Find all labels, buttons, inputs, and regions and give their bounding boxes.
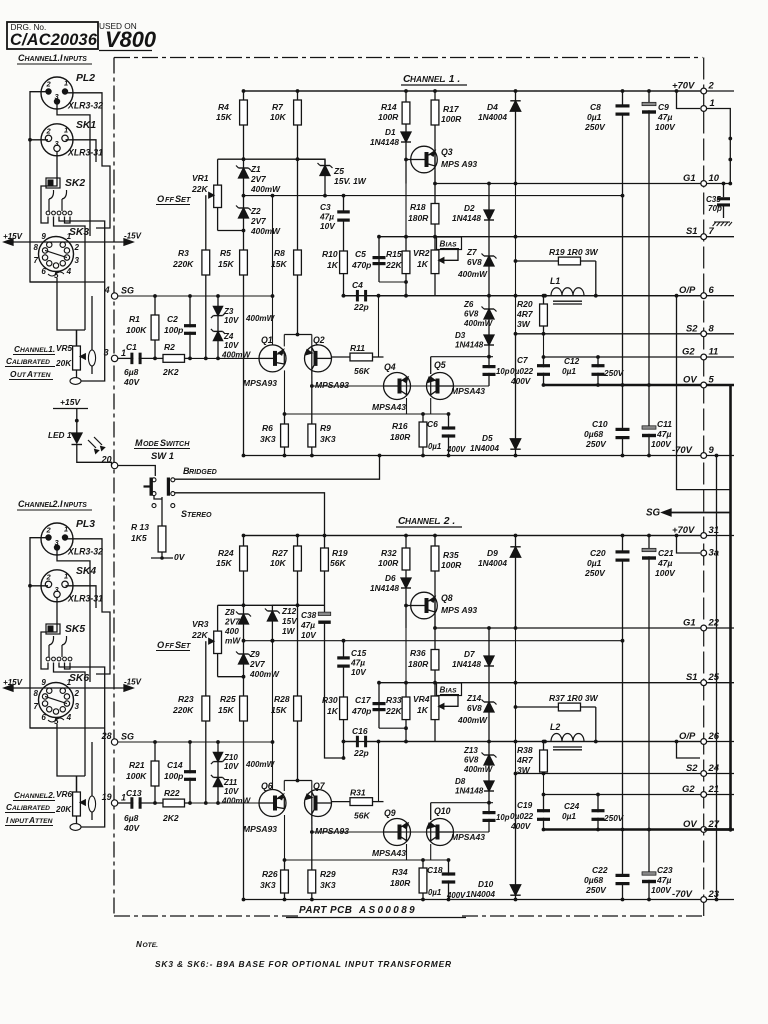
node 19 input — [111, 800, 117, 806]
svg-text:Z6: Z6 — [463, 300, 474, 309]
svg-text:10V: 10V — [224, 762, 239, 771]
svg-text:250V: 250V — [585, 439, 607, 449]
resistor R35 100R — [434, 536, 436, 547]
zener Z5 15V 1W — [324, 159, 326, 165]
capacitor C24 0u1 — [597, 795, 599, 813]
svg-text:Z9: Z9 — [249, 650, 260, 659]
junction — [596, 828, 600, 832]
terminal 3a stub — [677, 536, 701, 554]
capacitor C4 22p — [344, 295, 359, 297]
diode D7 1N4148 — [488, 628, 490, 656]
channel1 -70V rail line — [244, 455, 735, 457]
svg-text:R6: R6 — [262, 423, 273, 433]
wire jack contacts bus — [54, 663, 86, 777]
junction — [715, 898, 719, 902]
junction — [153, 294, 157, 298]
svg-text:220K: 220K — [172, 259, 194, 269]
svg-text:Q8: Q8 — [441, 593, 453, 603]
wire Q1 collector down — [284, 370, 286, 414]
wire driver base row — [312, 385, 489, 387]
svg-text:2: 2 — [46, 126, 52, 135]
junction — [283, 454, 287, 458]
svg-text:C21: C21 — [658, 548, 674, 558]
wire input row to Q1 base — [190, 802, 259, 804]
junction — [377, 294, 381, 298]
svg-text:2V7: 2V7 — [250, 175, 266, 184]
svg-text:7: 7 — [709, 225, 715, 236]
svg-text:56K: 56K — [330, 558, 346, 568]
svg-text:250V: 250V — [603, 814, 625, 823]
svg-text:2K2: 2K2 — [162, 367, 179, 377]
potentiometer VR5 20K — [76, 330, 78, 346]
svg-text:PL3: PL3 — [76, 519, 95, 530]
wire LED to node 20 — [77, 445, 112, 466]
junction — [421, 898, 425, 902]
svg-text:-15V: -15V — [124, 678, 142, 687]
svg-text:22p: 22p — [353, 748, 369, 758]
svg-text:HANNEL: HANNEL — [405, 517, 439, 526]
junction — [342, 639, 346, 643]
junction — [271, 740, 275, 744]
junction — [204, 801, 208, 805]
svg-text:Q10: Q10 — [434, 806, 451, 816]
svg-text:R33: R33 — [386, 695, 402, 705]
svg-text:O/P: O/P — [679, 730, 696, 741]
diode D9 1N4004 — [515, 536, 517, 547]
wire VR1 bottom link — [218, 676, 244, 678]
svg-text:10K: 10K — [270, 558, 286, 568]
svg-text:6: 6 — [709, 284, 715, 295]
svg-text:OTE.: OTE. — [143, 942, 159, 949]
svg-text:SW 1: SW 1 — [151, 450, 174, 461]
capacitor C1 6u8 40V — [118, 357, 134, 359]
junction — [404, 681, 408, 685]
svg-text:8: 8 — [34, 243, 39, 252]
svg-text:VR5: VR5 — [56, 344, 72, 353]
junction — [487, 355, 491, 359]
svg-text:3K3: 3K3 — [320, 880, 336, 890]
svg-text:22p: 22p — [353, 302, 369, 312]
svg-text:400V: 400V — [510, 377, 532, 386]
svg-text:-15V: -15V — [124, 232, 142, 241]
svg-text:PL2: PL2 — [76, 73, 95, 84]
junction — [542, 740, 546, 744]
svg-text:C4: C4 — [352, 280, 363, 290]
svg-text:MPSA93: MPSA93 — [315, 380, 349, 390]
svg-text:N: N — [136, 940, 142, 949]
channel1 G1 line line — [434, 183, 730, 185]
resistor R31 56K — [332, 801, 351, 803]
junction — [447, 858, 451, 862]
wire SK pin3 down — [41, 597, 57, 669]
svg-text:MPS A93: MPS A93 — [441, 605, 477, 615]
resistor R4 15K — [243, 91, 245, 100]
svg-text:1N4148: 1N4148 — [370, 584, 399, 593]
svg-text:.1.: .1. — [50, 53, 60, 63]
junction — [728, 158, 732, 162]
svg-text:D10: D10 — [478, 880, 494, 889]
svg-text:TEREO: TEREO — [187, 511, 212, 519]
terminal 1 — [701, 106, 707, 112]
svg-text:6: 6 — [41, 267, 46, 276]
resistor R32 100R — [405, 536, 407, 549]
junction — [514, 772, 518, 776]
svg-text:D8: D8 — [455, 777, 466, 786]
junction — [216, 357, 220, 361]
svg-text:NPUTS: NPUTS — [64, 56, 88, 63]
junction — [514, 626, 518, 630]
svg-text:0µ1: 0µ1 — [587, 558, 602, 568]
svg-text:47µ: 47µ — [657, 558, 672, 568]
svg-text:10V: 10V — [351, 668, 367, 677]
svg-text:Z8: Z8 — [224, 608, 235, 617]
wire XLR pin3 down — [57, 548, 90, 682]
capacitor C38 47u 10V — [324, 571, 326, 616]
svg-text:R8: R8 — [274, 248, 285, 258]
resistor R14 100R — [405, 91, 407, 102]
zener Z10 10V — [217, 742, 219, 752]
svg-text:Q4: Q4 — [384, 362, 396, 372]
svg-text:6V8: 6V8 — [467, 258, 482, 267]
svg-text:2: 2 — [46, 80, 52, 89]
svg-text:MPSA93: MPSA93 — [243, 378, 277, 388]
svg-text:XLR3-31: XLR3-31 — [67, 147, 103, 157]
junction — [433, 534, 437, 538]
resistor R17 100R — [434, 91, 436, 100]
svg-text:20K: 20K — [55, 359, 72, 368]
junction — [543, 740, 547, 744]
svg-text:NPUTS: NPUTS — [64, 502, 88, 509]
svg-text:1N4148: 1N4148 — [452, 214, 481, 223]
svg-text:R15: R15 — [386, 249, 402, 259]
screen oval on wiper wire — [88, 350, 95, 366]
resistor R9 3K3 — [311, 386, 313, 424]
SG arrow right margin — [668, 512, 731, 514]
svg-text:. 1 .: . 1 . — [443, 74, 460, 85]
zener Z7 6V8 — [488, 238, 490, 256]
svg-text:D7: D7 — [464, 650, 475, 659]
junction — [283, 858, 287, 862]
channel1 S1 feedback line line — [379, 236, 734, 238]
svg-text:R29: R29 — [320, 869, 336, 879]
junction — [514, 294, 518, 298]
svg-text:PART: PART — [299, 905, 327, 916]
transistor Q6 MPSA93 — [259, 790, 286, 817]
svg-text:C24: C24 — [564, 802, 580, 811]
socket SK6 B9A base — [39, 683, 74, 718]
svg-text:22: 22 — [708, 617, 720, 628]
svg-text:7: 7 — [34, 702, 39, 711]
svg-text:HANNEL: HANNEL — [20, 793, 48, 800]
svg-text:C19: C19 — [517, 801, 533, 810]
resistor R24 15K — [243, 536, 245, 547]
PCB boundary bottom edge — [114, 915, 298, 917]
svg-text:1N4148: 1N4148 — [455, 341, 484, 350]
junction — [647, 383, 651, 387]
wire feedback box left stub — [378, 237, 380, 282]
channel1 O/P line terminal 6 — [701, 293, 707, 299]
channel2 +70V rail terminal 31 — [701, 533, 707, 539]
resistor R27 10K — [297, 536, 299, 547]
svg-text:Z11: Z11 — [223, 778, 238, 787]
svg-text:+70V: +70V — [672, 80, 695, 91]
resistor R3 220K — [205, 222, 207, 250]
svg-text:O: O — [157, 194, 164, 204]
svg-text:IAS: IAS — [446, 242, 458, 249]
junction — [421, 454, 425, 458]
svg-text:2: 2 — [73, 689, 79, 698]
svg-text:+15V: +15V — [60, 397, 81, 407]
junction — [647, 454, 651, 458]
wire harness down — [59, 663, 105, 730]
svg-text:AS00089: AS00089 — [358, 905, 417, 916]
zener Z2 2V7 — [243, 196, 245, 208]
wire O/P D5 column — [515, 237, 517, 334]
wire to SK pin2 — [30, 585, 48, 587]
svg-text:1N4148: 1N4148 — [455, 787, 484, 796]
svg-text:C2: C2 — [167, 314, 178, 324]
svg-text:0µ68: 0µ68 — [584, 429, 603, 439]
bias box — [437, 237, 462, 250]
svg-text:D3: D3 — [455, 331, 466, 340]
junction — [204, 357, 208, 361]
svg-text:R4: R4 — [218, 102, 229, 112]
svg-text:.2.: .2. — [46, 791, 55, 800]
svg-text:47µ: 47µ — [350, 659, 365, 668]
PCB boundary left edge — [113, 58, 115, 917]
svg-text:C38: C38 — [301, 611, 317, 620]
svg-text:R38: R38 — [517, 745, 533, 755]
junction — [542, 383, 546, 387]
junction — [596, 383, 600, 387]
svg-text:10: 10 — [709, 172, 720, 183]
wire Q4 Q5 emitters to lower row — [406, 844, 408, 860]
svg-text:2: 2 — [46, 572, 52, 581]
diode D6 1N4148 — [405, 574, 407, 578]
diode D1 1N4148 — [405, 128, 407, 132]
zener Z14 6V8 — [488, 684, 490, 702]
junction — [542, 793, 546, 797]
svg-text:HANNEL: HANNEL — [20, 347, 48, 354]
transistor Q5 MPSA43 — [427, 373, 454, 400]
connector PL3 XLR male — [41, 523, 73, 555]
potentiometer VR6 20K — [76, 776, 78, 792]
title block drawing number box — [7, 22, 98, 49]
svg-text:C7: C7 — [517, 356, 528, 365]
bias box — [437, 683, 462, 696]
svg-text:100V: 100V — [651, 439, 672, 449]
junction — [621, 383, 625, 387]
wire feedback box left stub — [378, 683, 380, 729]
svg-text:D4: D4 — [487, 102, 498, 112]
wire pot top feed — [57, 724, 85, 776]
junction — [296, 333, 300, 337]
svg-text:15K: 15K — [216, 112, 232, 122]
svg-text:400mW: 400mW — [221, 797, 252, 806]
svg-text:SK3: SK3 — [69, 227, 89, 238]
junction — [433, 89, 437, 93]
svg-text:R27: R27 — [272, 548, 289, 558]
inductor L1 — [551, 288, 584, 296]
channel1 G2 line line — [543, 356, 734, 358]
svg-text:C3: C3 — [320, 203, 331, 212]
wire pot return — [81, 283, 105, 381]
svg-text:R24: R24 — [218, 548, 234, 558]
svg-text:15K: 15K — [271, 259, 287, 269]
node 4 SG — [111, 293, 117, 299]
channel1 S2 line terminal 8 — [701, 331, 707, 337]
junction — [242, 675, 246, 679]
wire R11 to O/P row — [378, 296, 380, 357]
channel2 G1 line line — [434, 627, 734, 629]
svg-text:400mW: 400mW — [463, 319, 494, 328]
svg-text:Z2: Z2 — [250, 207, 261, 216]
wire SG row — [118, 295, 273, 297]
svg-text:mW: mW — [225, 637, 241, 646]
junction — [283, 412, 287, 416]
capacitor C7 0u022 400V — [543, 357, 545, 367]
junction — [675, 534, 679, 538]
resistor R13 1K5 — [161, 497, 163, 526]
svg-text:R26: R26 — [262, 869, 278, 879]
junction — [378, 454, 382, 458]
svg-text:C14: C14 — [167, 760, 183, 770]
junction — [675, 89, 679, 93]
svg-text:A: A — [28, 816, 35, 825]
svg-text:47µ: 47µ — [319, 213, 334, 222]
resistor R23 220K — [205, 668, 207, 696]
junction — [342, 194, 346, 198]
svg-text:Z5: Z5 — [333, 166, 344, 176]
svg-text:6V8: 6V8 — [464, 310, 479, 319]
svg-text:Z12: Z12 — [281, 607, 297, 616]
junction — [514, 454, 518, 458]
wire Q2 collector to driver row — [311, 370, 313, 386]
svg-text:400mW: 400mW — [250, 185, 281, 194]
-15V arrow — [14, 687, 122, 689]
wire D4 column to S1 row — [515, 184, 517, 237]
svg-text:250V: 250V — [584, 122, 606, 132]
wire bridged bottom — [175, 493, 325, 536]
svg-text:10V: 10V — [224, 787, 239, 796]
zener Z8 2V7 — [243, 605, 245, 614]
svg-text:SK6: SK6 — [69, 673, 89, 684]
junction — [514, 681, 518, 685]
svg-text:400mW: 400mW — [249, 670, 280, 679]
wire Q2 collector to driver row — [311, 815, 313, 832]
wire O/P D5 column — [515, 683, 517, 774]
channel1 +70V rail terminal 2 — [701, 88, 707, 94]
zener Z11 10V — [217, 771, 219, 777]
svg-text:2: 2 — [73, 243, 79, 252]
svg-text:20: 20 — [101, 455, 112, 465]
channel2 O/P line line — [342, 741, 734, 743]
junction — [542, 828, 546, 832]
svg-text:26: 26 — [708, 730, 720, 741]
junction — [621, 534, 625, 538]
wire OV net vertical bold — [729, 385, 732, 830]
svg-text:2V7: 2V7 — [250, 217, 266, 226]
wire emitter bridge — [284, 780, 312, 782]
wire +70V rail — [244, 90, 701, 92]
svg-text:15V: 15V — [282, 617, 298, 626]
capacitor C10 0u68 250V — [622, 385, 624, 431]
wire pot bottom — [76, 370, 78, 378]
svg-text:A: A — [26, 370, 33, 379]
svg-text:NPUT: NPUT — [10, 818, 29, 825]
svg-text:G1: G1 — [683, 617, 696, 628]
svg-text:R22: R22 — [164, 788, 180, 798]
svg-text:3K3: 3K3 — [260, 434, 276, 444]
junction — [447, 454, 451, 458]
zener Z9 2V7 — [243, 641, 245, 654]
junction — [404, 740, 408, 744]
resistor R30 1K — [343, 681, 345, 697]
diode D2 1N4148 — [488, 184, 490, 211]
resistor R34 180R — [422, 860, 424, 868]
svg-text:56K: 56K — [354, 366, 370, 376]
svg-text:20K: 20K — [55, 805, 72, 814]
diode D4 1N4004 — [515, 91, 517, 101]
junction — [283, 898, 287, 902]
wire C38 column — [325, 641, 344, 758]
resistor R5 15K — [243, 231, 245, 251]
wire bridged top — [175, 456, 380, 480]
wire Z5 hook — [298, 159, 326, 165]
junction — [447, 412, 451, 416]
junction — [647, 828, 651, 832]
svg-text:R30: R30 — [322, 695, 338, 705]
capacitor C9 47u 100V — [648, 91, 650, 106]
capacitor C19 0u022 400V — [543, 795, 545, 813]
svg-text:R32: R32 — [381, 548, 397, 558]
channel1 +70V rail line — [244, 90, 735, 92]
svg-text:4: 4 — [104, 285, 110, 295]
svg-text:D9: D9 — [487, 548, 498, 558]
potentiometer VR4 1K — [434, 683, 436, 696]
+15V arrow — [5, 687, 14, 689]
wire jack contact stub — [65, 217, 71, 224]
svg-text:9: 9 — [709, 444, 715, 455]
junction — [216, 801, 220, 805]
junction — [542, 772, 546, 776]
svg-text:SG: SG — [646, 508, 661, 519]
transistor Q1 MPSA93 — [259, 345, 286, 372]
svg-text:R1: R1 — [129, 314, 140, 324]
svg-text:22K: 22K — [191, 630, 208, 640]
junction — [647, 89, 651, 93]
svg-text:VR4: VR4 — [413, 694, 430, 704]
+15V arrow — [5, 241, 14, 243]
svg-text:S1: S1 — [686, 225, 698, 236]
junction — [404, 726, 408, 730]
channel2 -70V rail line — [244, 899, 735, 901]
svg-text:C15: C15 — [351, 649, 367, 658]
capacitor C18 0u1 400V — [448, 860, 450, 876]
junction — [722, 182, 726, 186]
channel2 S2 line terminal 24 — [701, 771, 707, 777]
wire R11 to O/P row — [378, 742, 380, 802]
svg-text:ET: ET — [181, 641, 192, 650]
svg-text:1K: 1K — [417, 705, 429, 715]
capacitor C14 100p — [189, 742, 191, 773]
svg-text:C6: C6 — [427, 419, 438, 429]
wire SK pin1 — [66, 586, 97, 608]
zener Z13 6V8 — [488, 742, 490, 756]
svg-text:TTEN: TTEN — [35, 818, 53, 825]
channel2 S1 feedback line terminal 25 — [701, 680, 707, 686]
resistor R8 15K — [297, 159, 299, 250]
